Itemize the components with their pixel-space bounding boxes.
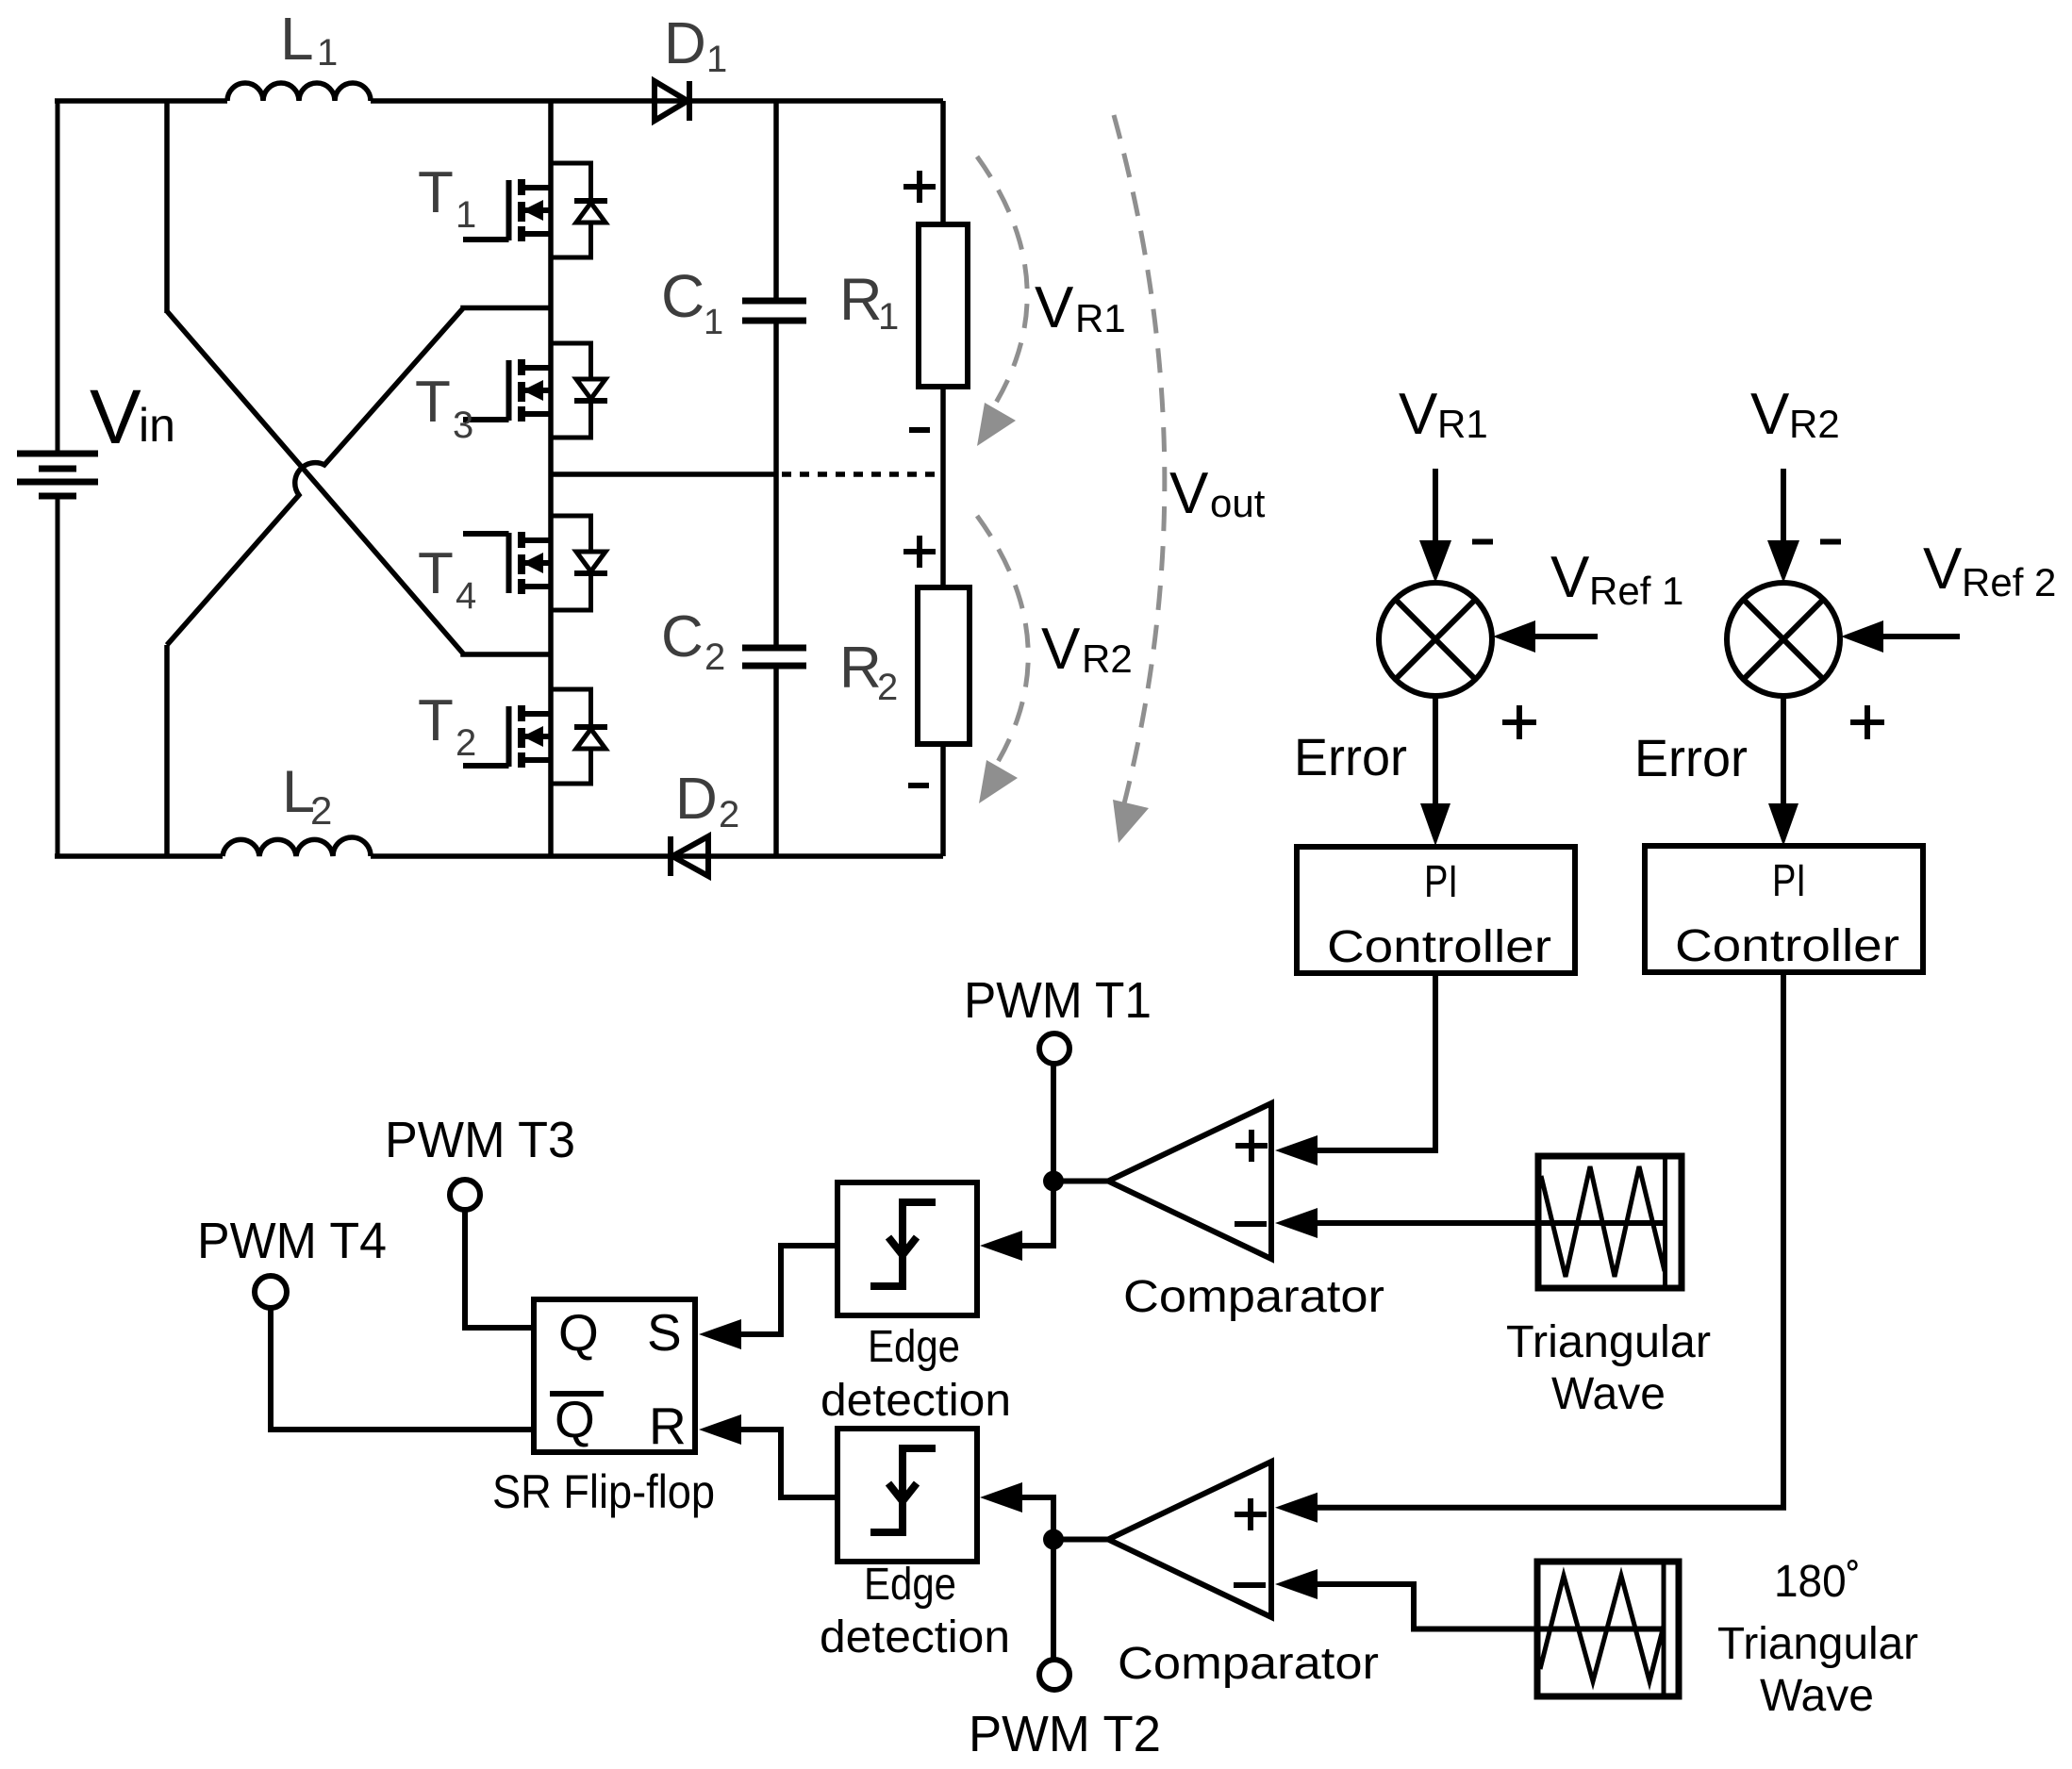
- terminal PWM T4: [255, 1276, 287, 1308]
- arc VR1 dashed: [977, 157, 1027, 415]
- label VR1 input: [1399, 382, 1488, 447]
- label VR2 input: [1750, 382, 1840, 447]
- arrowhead edge detection 2 input: [980, 1482, 1022, 1513]
- wire capacitor column lower: [773, 666, 779, 856]
- wire VRef2 arrow: [1841, 620, 1960, 653]
- svg-text:4: 4: [456, 575, 476, 617]
- arrowhead SR S input: [699, 1319, 741, 1349]
- svg-text:Ref 1: Ref 1: [1589, 569, 1683, 613]
- wire mosfet bus: [548, 101, 554, 856]
- svg-text:T: T: [418, 688, 454, 753]
- svg-text:PWM T3: PWM T3: [385, 1112, 575, 1168]
- svg-text:PWM T2: PWM T2: [969, 1706, 1161, 1762]
- wire edge2 to SR R input: [741, 1430, 836, 1497]
- wire bottom rail right: [371, 853, 943, 859]
- svg-text:C: C: [661, 262, 704, 330]
- wire mid node dashed: [782, 471, 943, 477]
- svg-text:V: V: [1923, 537, 1963, 602]
- svg-text:R2: R2: [1082, 637, 1133, 681]
- label R1: [839, 267, 899, 338]
- label plus sum2: [1850, 705, 1884, 739]
- wire PI1 to comparator1 plus: [1318, 973, 1435, 1150]
- svg-text:L: L: [280, 5, 314, 73]
- svg-text:out: out: [1210, 481, 1266, 525]
- wire Error1 arrow: [1420, 696, 1450, 846]
- svg-text:PWM T4: PWM T4: [197, 1213, 387, 1269]
- wire load column lower: [940, 744, 946, 856]
- label plus comparator1: [1235, 1130, 1268, 1162]
- wire load column upper: [940, 101, 946, 224]
- battery Vin: [17, 101, 98, 856]
- wire inner-left vertical upper: [164, 101, 170, 313]
- svg-text:Error: Error: [1294, 727, 1407, 786]
- svg-text:detection: detection: [821, 1376, 1011, 1426]
- svg-text:Edge: Edge: [864, 1560, 956, 1610]
- node comparator1 output junction: [1043, 1171, 1064, 1192]
- svg-text:R1: R1: [1437, 402, 1488, 446]
- svg-text:180˚: 180˚: [1774, 1557, 1861, 1607]
- wire capacitor column middle: [773, 321, 779, 648]
- diode D2: [671, 836, 708, 876]
- terminal PWM T3: [450, 1180, 480, 1210]
- triangular wave box 1: [1538, 1156, 1682, 1288]
- wire comparator1 output: [1053, 1179, 1111, 1184]
- svg-text:Edge: Edge: [868, 1322, 960, 1372]
- svg-text:C: C: [661, 604, 704, 670]
- svg-text:R2: R2: [1789, 402, 1840, 446]
- wire inner-left vertical lower: [164, 645, 170, 856]
- label D2: [675, 767, 739, 835]
- terminal PWM T1: [1039, 1033, 1069, 1064]
- label minus sum1: [1472, 539, 1493, 545]
- svg-text:D: D: [675, 767, 718, 832]
- wire bottom rail left: [55, 853, 223, 859]
- svg-text:V: V: [1750, 382, 1790, 447]
- arrowhead edge detection 1 input: [980, 1231, 1022, 1261]
- label T2: [418, 688, 476, 764]
- svg-text:D: D: [664, 11, 706, 76]
- arc Vout dashed: [1114, 115, 1165, 811]
- label minus comparator2: [1234, 1582, 1266, 1588]
- wire Error2 arrow: [1768, 696, 1798, 846]
- wire top rail right: [371, 98, 943, 104]
- PI controller 1: [1297, 847, 1575, 973]
- svg-text:Controller: Controller: [1327, 922, 1551, 972]
- arc VR2 dashed: [977, 516, 1028, 774]
- svg-text:2: 2: [877, 667, 898, 708]
- label C1: [661, 262, 723, 342]
- label T1: [418, 160, 476, 236]
- wire VR2 arrow: [1767, 469, 1799, 583]
- label L1: [280, 5, 338, 74]
- svg-text:1: 1: [706, 39, 727, 80]
- svg-text:Triangular: Triangular: [1506, 1317, 1711, 1367]
- svg-text:Wave: Wave: [1760, 1671, 1874, 1721]
- transistor T3: [463, 343, 607, 438]
- label Comparator 1: [1123, 1272, 1384, 1322]
- arrowhead comparator2 minus: [1275, 1569, 1318, 1599]
- arrowhead SR R input: [699, 1414, 741, 1445]
- wire VR1 arrow: [1419, 469, 1451, 583]
- label minus comparator1: [1235, 1221, 1267, 1227]
- wire comparator2 to edge detection 2: [1018, 1497, 1053, 1540]
- label T3: [415, 370, 473, 446]
- label 180 Triangular Wave 2: [1717, 1557, 1918, 1721]
- svg-text:Q: Q: [558, 1303, 599, 1362]
- wire load column middle: [940, 387, 946, 587]
- label VR2 arc: [1041, 617, 1133, 682]
- svg-text:1: 1: [704, 303, 723, 342]
- label Vout arc: [1169, 461, 1266, 526]
- capacitor C1: [742, 301, 806, 321]
- svg-text:2: 2: [704, 637, 725, 678]
- transistor T2: [463, 689, 607, 784]
- label minus R1: [909, 427, 930, 433]
- svg-text:2: 2: [310, 788, 332, 833]
- svg-text:R: R: [839, 267, 883, 333]
- summing junction 1: [1379, 583, 1492, 696]
- wire cross diagonal B with hop: [167, 308, 551, 646]
- label plus comparator2: [1235, 1498, 1267, 1530]
- label VRef1: [1550, 545, 1683, 613]
- svg-text:PI: PI: [1772, 856, 1806, 906]
- svg-text:1: 1: [456, 194, 476, 236]
- summing junction 2: [1727, 583, 1840, 696]
- svg-text:T: T: [418, 160, 454, 225]
- svg-text:Triangular: Triangular: [1717, 1619, 1918, 1669]
- resistor R2: [918, 587, 970, 744]
- inductor L2: [223, 837, 371, 856]
- label C2: [661, 604, 725, 678]
- svg-text:R: R: [649, 1397, 687, 1455]
- arrowhead Vout: [1113, 800, 1149, 843]
- PI controller 2: [1645, 846, 1923, 972]
- svg-text:T: T: [415, 370, 451, 435]
- label Triangular Wave 1: [1506, 1317, 1711, 1419]
- svg-text:Comparator: Comparator: [1118, 1639, 1379, 1689]
- label Edge detection 2: [820, 1560, 1010, 1662]
- svg-text:1: 1: [317, 32, 338, 74]
- wire triangular wave 1 to comparator1 minus: [1318, 1220, 1665, 1226]
- label PWM T3: [385, 1112, 575, 1168]
- svg-text:V: V: [1550, 545, 1590, 610]
- label PWM T4: [197, 1213, 387, 1269]
- arrowhead VR1: [977, 403, 1016, 446]
- arrowhead VR2: [979, 760, 1018, 803]
- node comparator2 output junction: [1043, 1529, 1064, 1550]
- svg-text:V: V: [1399, 382, 1438, 447]
- svg-text:2: 2: [456, 722, 476, 764]
- comparator 2: [1108, 1462, 1271, 1617]
- label plus R2: [903, 536, 936, 568]
- svg-text:3: 3: [453, 405, 473, 446]
- wire PWM T3 to SR Q: [465, 1210, 534, 1328]
- svg-text:Comparator: Comparator: [1123, 1272, 1384, 1322]
- capacitor C2: [742, 648, 806, 666]
- label plus sum1: [1502, 705, 1536, 739]
- wire comparator1 to edge detection 1: [1018, 1182, 1053, 1247]
- svg-text:T: T: [418, 541, 454, 606]
- label minus sum2: [1820, 539, 1841, 545]
- label Edge detection 1: [821, 1322, 1011, 1426]
- terminal PWM T2: [1039, 1660, 1069, 1690]
- wire PWM T2 terminal: [1051, 1540, 1056, 1661]
- label SR Flip-flop: [492, 1465, 715, 1518]
- wire 180 triangular wave to comparator2 minus: [1318, 1584, 1664, 1629]
- label plus R1: [903, 171, 936, 203]
- wire VRef1 arrow: [1493, 620, 1598, 653]
- label T4: [418, 541, 476, 617]
- svg-text:R1: R1: [1075, 296, 1126, 340]
- svg-text:Error: Error: [1634, 728, 1748, 787]
- label VRef2: [1923, 537, 2056, 604]
- label minus R2: [908, 783, 929, 788]
- wire top rail left: [55, 98, 227, 104]
- label Vin: [90, 374, 175, 460]
- triangular wave box 2: [1537, 1562, 1679, 1696]
- svg-text:PWM T1: PWM T1: [964, 972, 1152, 1029]
- label D1: [664, 11, 727, 80]
- transistor T1: [463, 163, 607, 257]
- svg-text:detection: detection: [820, 1612, 1010, 1662]
- wire comparator2 output: [1053, 1537, 1111, 1543]
- edge detection 2 box: [837, 1429, 977, 1562]
- label Comparator 2: [1118, 1639, 1379, 1689]
- svg-text:S: S: [647, 1303, 682, 1362]
- wire to PWM T1 terminal: [1051, 1065, 1056, 1182]
- label R2: [839, 636, 898, 708]
- resistor R1: [919, 224, 968, 387]
- transistor T4: [463, 516, 607, 610]
- arrowhead comparator2 plus: [1275, 1493, 1318, 1523]
- label Error 1: [1294, 727, 1407, 786]
- label VR1 arc: [1035, 275, 1126, 340]
- wire edge1 to SR S input: [741, 1246, 836, 1334]
- svg-text:in: in: [139, 399, 175, 452]
- svg-text:V: V: [90, 374, 141, 460]
- wire capacitor column upper: [773, 101, 779, 301]
- svg-text:Wave: Wave: [1551, 1369, 1666, 1419]
- SR flip-flop box: [534, 1299, 695, 1455]
- arrowhead comparator1 minus: [1275, 1208, 1318, 1238]
- comparator 1: [1108, 1103, 1271, 1259]
- svg-text:Controller: Controller: [1675, 921, 1899, 971]
- svg-text:2: 2: [719, 794, 739, 835]
- wire mid node solid: [551, 471, 776, 477]
- svg-text:V: V: [1041, 617, 1081, 682]
- diode D1: [655, 81, 689, 121]
- wire PI2 to comparator2 plus: [1318, 972, 1783, 1508]
- wire PWM T4 to SR Qbar: [271, 1308, 534, 1430]
- svg-text:PI: PI: [1424, 857, 1458, 907]
- label Error 2: [1634, 728, 1748, 787]
- arrowhead comparator1 plus: [1275, 1135, 1318, 1166]
- wire cross diagonal A: [167, 311, 551, 654]
- svg-text:SR Flip-flop: SR Flip-flop: [492, 1465, 715, 1518]
- svg-text:1: 1: [878, 296, 899, 338]
- label PWM T2: [969, 1706, 1161, 1762]
- svg-text:V: V: [1035, 275, 1074, 340]
- svg-text:Ref 2: Ref 2: [1962, 560, 2056, 604]
- label PWM T1: [964, 972, 1152, 1029]
- edge detection 1 box: [837, 1182, 977, 1315]
- svg-text:R: R: [839, 636, 882, 701]
- inductor L1: [227, 83, 371, 101]
- svg-text:Q: Q: [555, 1390, 595, 1448]
- svg-text:V: V: [1169, 461, 1209, 526]
- label L2: [282, 759, 332, 833]
